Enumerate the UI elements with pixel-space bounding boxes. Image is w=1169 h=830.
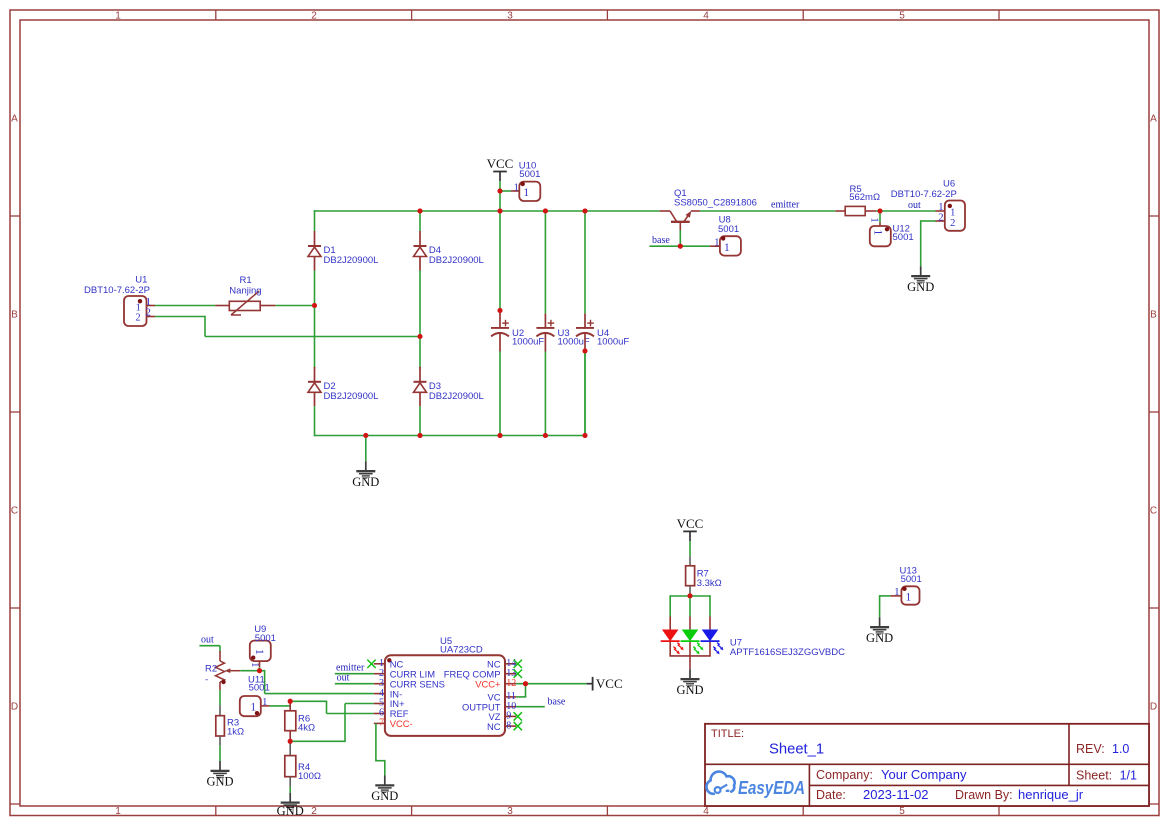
svg-text:henrique_jr: henrique_jr [1018,787,1084,802]
svg-text:2: 2 [311,10,317,21]
diode D1 DB2J20900L [308,231,378,271]
svg-text:VCC: VCC [677,516,704,531]
svg-text:1/1: 1/1 [1120,769,1137,783]
svg-text:VCC: VCC [487,156,514,171]
svg-text:VCC+: VCC+ [475,678,501,689]
svg-text:TITLE:: TITLE: [711,728,744,740]
svg-text:DB2J20900L: DB2J20900L [324,391,379,402]
wire U11 to R6 top node [270,705,291,707]
svg-text:5001: 5001 [519,169,540,180]
svg-text:1000uF: 1000uF [512,337,544,348]
wire U5 VCC+ to VCC [516,681,587,697]
svg-text:R2: R2 [205,663,217,674]
rgb led U7 APTF1616SEJ3ZGGVBDC [661,617,845,670]
net label emitter [771,200,800,211]
wire VCC to U10 [500,190,511,192]
svg-text:VCC-: VCC- [390,718,413,729]
svg-text:4kΩ: 4kΩ [298,722,315,733]
svg-text:2023-11-02: 2023-11-02 [863,787,929,802]
wire D1 to D2 [314,271,316,369]
ground GND R4 [277,793,304,818]
svg-text:DBT10-7.62-2P: DBT10-7.62-2P [84,285,150,296]
wire R6 bottom to U5 IN+ [288,704,374,744]
ground GND R3 [206,761,233,789]
svg-text:NC: NC [487,721,501,732]
svg-text:8: 8 [506,720,511,731]
svg-text:DBT10-7.62-2P: DBT10-7.62-2P [891,189,957,200]
capacitor U4 1000uF [576,210,629,436]
capacitor U2 1000uF [491,211,544,436]
svg-text:Company:: Company: [816,768,873,782]
wire D4 top [418,209,423,232]
svg-text:B: B [1150,310,1157,321]
diode D3 DB2J20900L [414,367,484,407]
wire node to U5 IN- [260,670,374,694]
wire emitter to U5 pin2 [335,673,374,675]
wire top bus left [314,210,660,231]
power flag VCC right [587,676,623,691]
svg-text:2: 2 [938,211,944,223]
net label base U5 [548,696,566,707]
svg-text:base: base [548,696,566,707]
no-connect marks U5 [367,660,522,731]
svg-text:GND: GND [352,475,379,489]
svg-text:Your Company: Your Company [881,767,967,782]
svg-text:4: 4 [703,806,709,817]
wire U5 VCC- to ground [375,723,385,775]
wire bus mid [543,209,588,214]
svg-text:1: 1 [724,242,730,254]
svg-text:1: 1 [513,181,519,193]
svg-text:-: - [205,675,208,686]
svg-text:1000uF: 1000uF [597,337,629,348]
svg-text:GND: GND [676,683,703,697]
connector U10 5001 [511,160,540,201]
svg-text:5: 5 [899,806,905,817]
svg-text:DB2J20900L: DB2J20900L [429,255,484,266]
transistor Q1 SS8050 [660,188,757,230]
connector U1 DBT10-7.62-2P [84,274,155,326]
svg-text:2: 2 [135,313,140,324]
power flag VCC R7 [677,516,704,541]
wire R7 to LED rails [670,593,710,616]
svg-text:5001: 5001 [901,574,922,585]
wire D3 to bottom bus [419,406,421,436]
svg-text:1: 1 [714,237,720,249]
wire VCC to R7 [689,541,691,566]
connector U11 5001 [240,675,270,717]
svg-text:Nanjing: Nanjing [229,285,261,296]
svg-text:APTF1616SEJ3ZGGVBDC: APTF1616SEJ3ZGGVBDC [730,647,845,658]
wire R3 to ground [219,745,221,761]
svg-text:1: 1 [871,230,883,236]
svg-text:4: 4 [703,10,709,21]
wire R5 to U6 [876,209,936,214]
svg-text:5: 5 [899,10,905,21]
fuse R1 Nanjing [215,275,275,315]
svg-text:1: 1 [115,10,121,21]
connector U12 5001 [869,217,914,246]
wire U13 to ground [880,595,891,617]
wire node to U5 REF [288,699,374,714]
svg-text:1: 1 [253,649,265,655]
resistor R3 1kOhm [216,716,244,746]
op-amp regulator U5 UA723CD [374,636,516,736]
wire R4 to ground [289,787,291,793]
easyeda logo [706,772,805,799]
svg-text:2: 2 [311,806,317,817]
wire R1 to D1-D2 node [275,303,317,308]
wire VCC to bus [498,181,503,213]
wire node to U12 [879,211,881,222]
svg-text:3: 3 [507,806,513,817]
svg-text:3: 3 [507,10,513,21]
wire U1 pin1 to R1 [155,305,215,307]
wire out to U5 pin3 [335,683,374,685]
wire bus to ground [365,436,367,462]
svg-text:B: B [11,310,18,321]
svg-text:C: C [11,506,18,517]
svg-text:DB2J20900L: DB2J20900L [429,391,484,402]
svg-text:100Ω: 100Ω [298,771,321,782]
resistor R5 562mOhm [835,184,880,215]
svg-text:SS8050_C2891806: SS8050_C2891806 [674,198,757,209]
wire D2 to bottom bus [314,406,316,436]
svg-text:3.3kΩ: 3.3kΩ [697,578,722,589]
resistor R7 3.3kOhm [686,566,722,594]
svg-text:562mΩ: 562mΩ [849,192,880,203]
svg-text:GND: GND [277,804,304,818]
svg-text:2: 2 [146,306,152,318]
svg-text:Date:: Date: [816,788,846,802]
ground GND U6 [907,266,934,294]
svg-text:1kΩ: 1kΩ [227,726,244,737]
connector U6 DBT10-7.62-2P [891,178,965,230]
svg-text:5001: 5001 [893,232,914,243]
svg-text:GND: GND [371,789,398,803]
svg-text:GND: GND [866,631,893,645]
svg-text:U1: U1 [135,274,147,285]
net label out R2 [201,635,214,646]
svg-text:5001: 5001 [255,633,276,644]
svg-text:emitter: emitter [771,200,800,211]
svg-text:out: out [201,635,214,646]
wire R2 wiper to node [240,668,262,673]
svg-text:12: 12 [506,678,516,689]
ground GND U5 [371,776,398,804]
diode D4 DB2J20900L [414,231,484,271]
svg-text:A: A [1150,114,1157,125]
svg-text:GND: GND [907,280,934,294]
svg-text:5001: 5001 [249,683,270,694]
connector U9 5001 [249,624,276,668]
resistor R6 4kOhm [285,701,315,741]
wire U5 OUTPUT base [516,706,545,708]
wire U6 pin2 to ground [921,220,936,266]
svg-text:A: A [11,114,18,125]
potentiometer R2 [205,651,240,690]
net label out U5 [337,673,350,684]
connector U8 5001 [710,214,741,255]
svg-text:R1: R1 [240,275,252,286]
capacitor U3 1000uF [536,210,590,436]
power flag VCC top [487,156,514,181]
ground GND U7 [676,669,703,697]
wire U1 pin2 to D4-D3 node [155,316,423,339]
svg-text:1: 1 [869,217,881,223]
svg-text:D: D [1150,702,1157,713]
diode D2 DB2J20900L [308,367,378,407]
title block [705,724,1149,806]
wire D4 to D3 [419,271,421,369]
svg-text:GND: GND [206,775,233,789]
svg-text:Sheet:: Sheet: [1076,769,1112,783]
svg-text:Sheet_1: Sheet_1 [769,742,824,758]
svg-text:out: out [337,673,350,684]
svg-text:UA723CD: UA723CD [440,644,483,655]
svg-text:Drawn By:: Drawn By: [955,788,1013,802]
svg-text:base: base [652,235,670,246]
wire emitter bus [700,210,835,212]
wire base net [650,230,710,249]
wire out to R2 [199,646,220,652]
svg-text:1: 1 [906,592,912,604]
svg-text:VCC: VCC [596,676,623,691]
net label emitter U5 [336,663,365,674]
svg-text:C: C [1150,506,1157,517]
svg-text:REV:: REV: [1076,742,1105,756]
svg-text:EasyEDA: EasyEDA [738,777,805,798]
net label base [652,235,670,246]
svg-text:1: 1 [250,702,256,714]
svg-text:1: 1 [115,806,121,817]
resistor R4 100Ohm [285,741,321,787]
wire R2 bottom to R3 [219,690,221,716]
svg-text:2: 2 [950,218,955,229]
svg-text:1.0: 1.0 [1112,742,1129,756]
svg-text:DB2J20900L: DB2J20900L [324,255,379,266]
wire U9 to node [259,667,261,671]
wire bottom bus [315,433,588,438]
net label out U6 [908,200,921,211]
svg-text:U6: U6 [943,178,955,189]
svg-text:7: 7 [379,718,384,729]
ground GND bridge [352,461,379,489]
svg-text:D: D [11,702,18,713]
svg-text:5001: 5001 [718,224,739,235]
svg-text:1: 1 [523,187,529,199]
connector U13 5001 [890,565,921,604]
ground GND U13 [866,617,893,645]
svg-text:out: out [908,200,921,211]
